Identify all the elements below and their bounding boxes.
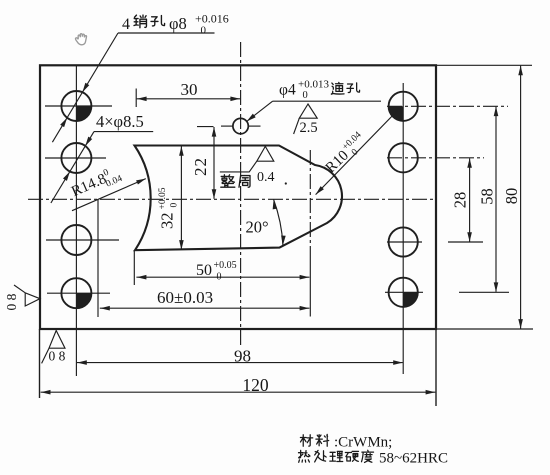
dimension 28 (right, rows 2-3) [469,158,471,241]
angular dimension 20 deg [274,200,283,246]
svg-text:28: 28 [451,192,470,209]
small hole vertical centerline [240,42,242,345]
pin hole L1 (phi8, filled SE quadrant) [61,91,91,121]
hole R3 horizontal centerline [387,241,422,243]
svg-text:80: 80 [502,188,521,205]
svg-text:0.4: 0.4 [257,170,275,185]
svg-text:0: 0 [201,25,207,37]
main horizontal centerline [28,198,437,200]
hole L4 horizontal centerline [47,292,110,294]
right hole column centerline [402,83,404,374]
leader: phi4 +0.013/0 through hole label [273,100,381,102]
svg-text:98: 98 [234,347,251,366]
svg-text:+0.013: +0.013 [298,79,329,91]
screw hole L3 (phi8.5) [61,225,91,255]
svg-text:50: 50 [196,262,212,279]
dimension 30 (top) [135,89,137,108]
cavity tip vertical centerline [309,150,311,250]
tip centerline extension (50/60 dim right extension) [309,250,311,317]
dimension 22 (phi4 center to axis) [197,126,214,128]
svg-text:+0.016: +0.016 [195,12,229,26]
dimension 60 +/-0.03 [97,199,99,317]
svg-text::CrWMn;: :CrWMn; [334,435,392,451]
svg-text:0: 0 [217,272,222,283]
left hole column centerline [75,66,77,377]
hole R4 horizontal centerline [385,291,423,293]
dimension 98 (hole columns) [77,362,403,364]
svg-text:22: 22 [191,157,210,176]
plate right edge extension (for 120 dim) [435,329,437,406]
leader: R10 +0.04/0 tip radius [316,111,398,195]
svg-text:φ4: φ4 [279,81,296,98]
svg-text:0 8: 0 8 [4,293,19,310]
hole L3 horizontal centerline [46,239,119,241]
surface finish symbol 0.8 (left edge) [14,285,40,306]
leader: 4 x phi8.5 label [94,131,153,133]
dimension 80 (plate height) [520,66,522,329]
svg-text:0: 0 [303,90,308,101]
surface finish symbol 2.5 (on phi4 leader shelf) [294,104,318,134]
material note: CrWMn [300,435,312,446]
cavity outline (32x50 slot with R14.8 concave left side, 20 deg taper, R10 tip) [135,146,342,251]
svg-text:60±0.03: 60±0.03 [157,288,213,307]
dimension 50 +0.05/0 [133,250,135,285]
screw hole R2 (phi8.5) [389,143,418,172]
svg-text:120: 120 [242,375,269,395]
svg-text:0 8: 0 8 [49,349,66,364]
svg-text:+0.05: +0.05 [214,260,237,271]
svg-text:20°: 20° [246,218,269,237]
pin hole L4 (phi8, filled SE quadrant) [61,278,91,308]
svg-text:58~62HRC: 58~62HRC [379,451,448,467]
svg-text:32: 32 [158,213,177,230]
plate left edge extension (for 120 dim) [39,329,41,398]
dimension 32 +0.05/0 (cavity height) [180,146,182,250]
plate top edge extension line (for 80 dim) [436,64,532,66]
heat treatment note: 58~62HRC [299,450,310,462]
dimension 58 (right, rows 1-4) [495,107,497,292]
hole R2 horizontal centerline + 28 dim top extension [387,157,484,159]
dimension 120 (plate width) [41,391,436,393]
surface finish symbol 0.8 (bottom edge) [42,331,65,364]
svg-text:0: 0 [170,203,180,208]
svg-text:4×φ8.5: 4×φ8.5 [96,112,144,131]
leader: 4 pin holes phi8 +0.016/0 label [118,32,215,34]
svg-text:φ8: φ8 [169,14,187,33]
svg-text:58: 58 [477,188,496,205]
hole R1 horizontal centerline + 58 dim top extension [387,105,508,107]
svg-text:30: 30 [181,80,198,99]
mouse grab-hand cursor artifact [76,34,87,45]
surface finish symbol 0.4 all-around (cavity) [220,146,274,172]
28 dim bottom extension line [448,241,483,243]
plate bottom edge extension line (for 80 dim) [436,328,533,330]
58 dim bottom extension line [459,291,509,293]
svg-text:2.5: 2.5 [300,120,318,136]
screw hole L2 (phi8.5) [61,143,91,173]
pin hole R4 (phi8, filled SE quadrant) [389,278,418,307]
screw hole R3 (phi8.5) [389,227,418,256]
leader: R14.8 0/-0.04 concave radius [72,179,146,211]
pin hole R1 (phi8, filled SW quadrant) [389,92,418,121]
hole L2 horizontal centerline [45,157,106,159]
svg-text:4: 4 [122,16,130,33]
svg-text:+0.05: +0.05 [158,187,168,209]
small through hole phi4 [233,118,248,133]
plate outline (120 x 80 blank) [40,65,436,329]
hole L1 horizontal centerline [45,105,112,107]
